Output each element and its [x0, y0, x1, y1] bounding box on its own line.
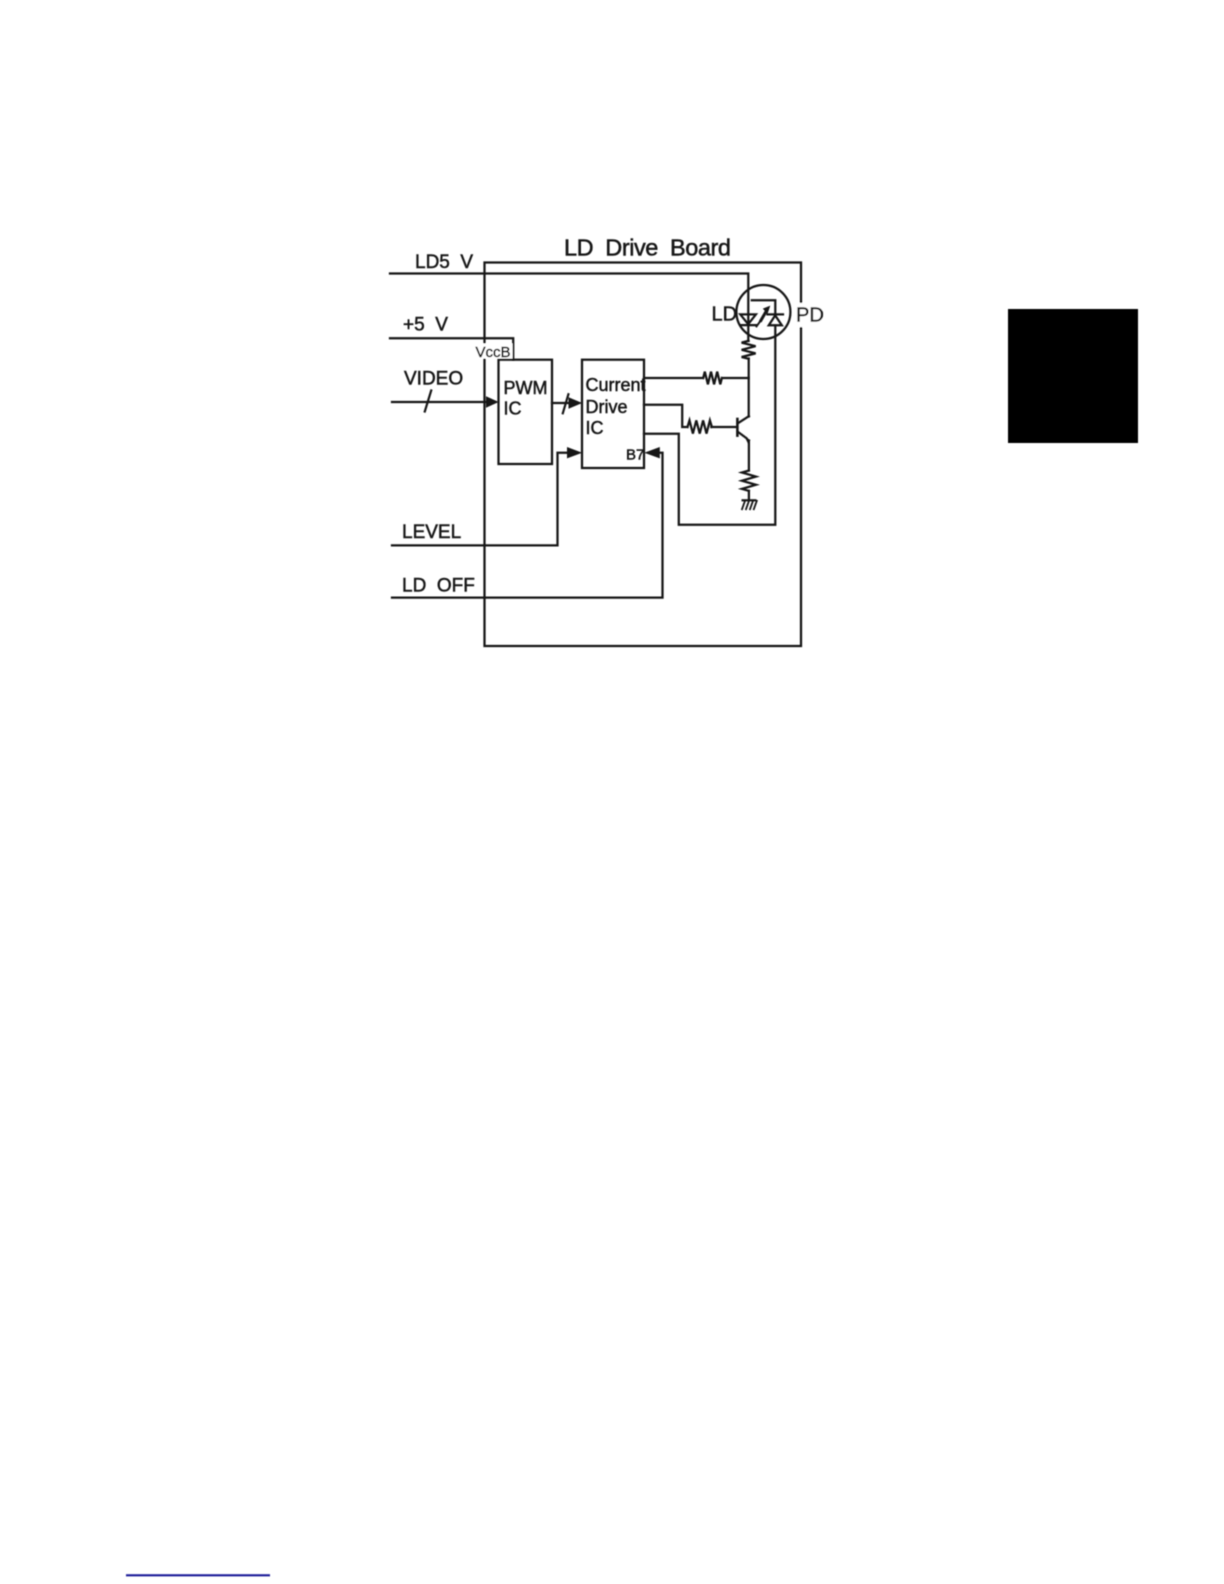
- svg-text:+5 V: +5 V: [403, 315, 448, 336]
- svg-text:IC: IC: [504, 399, 522, 419]
- svg-text:VIDEO: VIDEO: [404, 369, 463, 390]
- svg-text:VccB: VccB: [476, 344, 511, 361]
- svg-text:Drive: Drive: [586, 397, 628, 417]
- svg-text:LD: LD: [712, 304, 738, 326]
- svg-text:LEVEL: LEVEL: [402, 522, 461, 543]
- svg-text:LD Drive Board: LD Drive Board: [564, 235, 731, 261]
- svg-text:PD: PD: [796, 305, 824, 327]
- svg-text:LD OFF: LD OFF: [402, 576, 475, 597]
- svg-text:B7: B7: [626, 447, 644, 464]
- svg-text:PWM: PWM: [504, 378, 548, 398]
- svg-text:LD5 V: LD5 V: [415, 252, 473, 273]
- svg-text:IC: IC: [586, 418, 604, 438]
- svg-text:Current: Current: [586, 375, 646, 395]
